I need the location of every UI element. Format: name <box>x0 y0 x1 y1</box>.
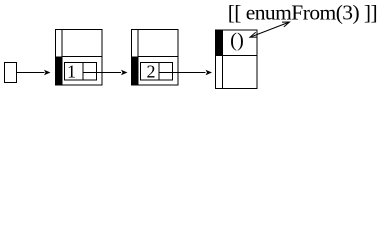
cell 3 tag column divider <box>222 30 224 89</box>
cons cell 2 outer box <box>132 30 179 86</box>
cell 3 black tag bar <box>216 30 223 56</box>
cell 1 horizontal divider <box>62 56 102 58</box>
cell 1 black tag bar <box>56 57 63 86</box>
cell 2 tag column divider <box>137 30 139 86</box>
wire cell1 to cell2 <box>83 72 121 74</box>
cell 2 inner divider <box>158 63 160 81</box>
wire cell2 to cell3 <box>159 72 206 74</box>
cell 2 black tag bar <box>132 57 139 86</box>
cell 2 inner value box <box>141 63 173 81</box>
cell 1 inner value box <box>65 63 97 81</box>
cell 2 horizontal divider <box>138 56 178 58</box>
annotation arrowhead upper-right <box>282 22 290 27</box>
arrowhead into cell2 <box>121 70 128 76</box>
svg-text:(): () <box>230 30 244 52</box>
cons cell 1 outer box <box>56 30 103 86</box>
cell 1 inner divider <box>82 63 84 81</box>
svg-text:1: 1 <box>67 62 76 82</box>
thunk cell 3 outer box <box>216 30 258 89</box>
root pointer box <box>5 63 17 83</box>
annotation arrow shaft <box>250 22 290 37</box>
cell 3 horizontal divider <box>216 55 258 57</box>
wire root to cell1 <box>17 72 45 74</box>
annotation arrowhead lower-left <box>250 32 258 37</box>
svg-text:2: 2 <box>147 62 156 82</box>
cell 1 tag column divider <box>61 30 63 86</box>
svg-text:[[ enumFrom(3) ]]: [[ enumFrom(3) ]] <box>228 0 377 24</box>
arrowhead into cell3 <box>206 70 213 76</box>
arrowhead into cell1 <box>44 70 51 76</box>
